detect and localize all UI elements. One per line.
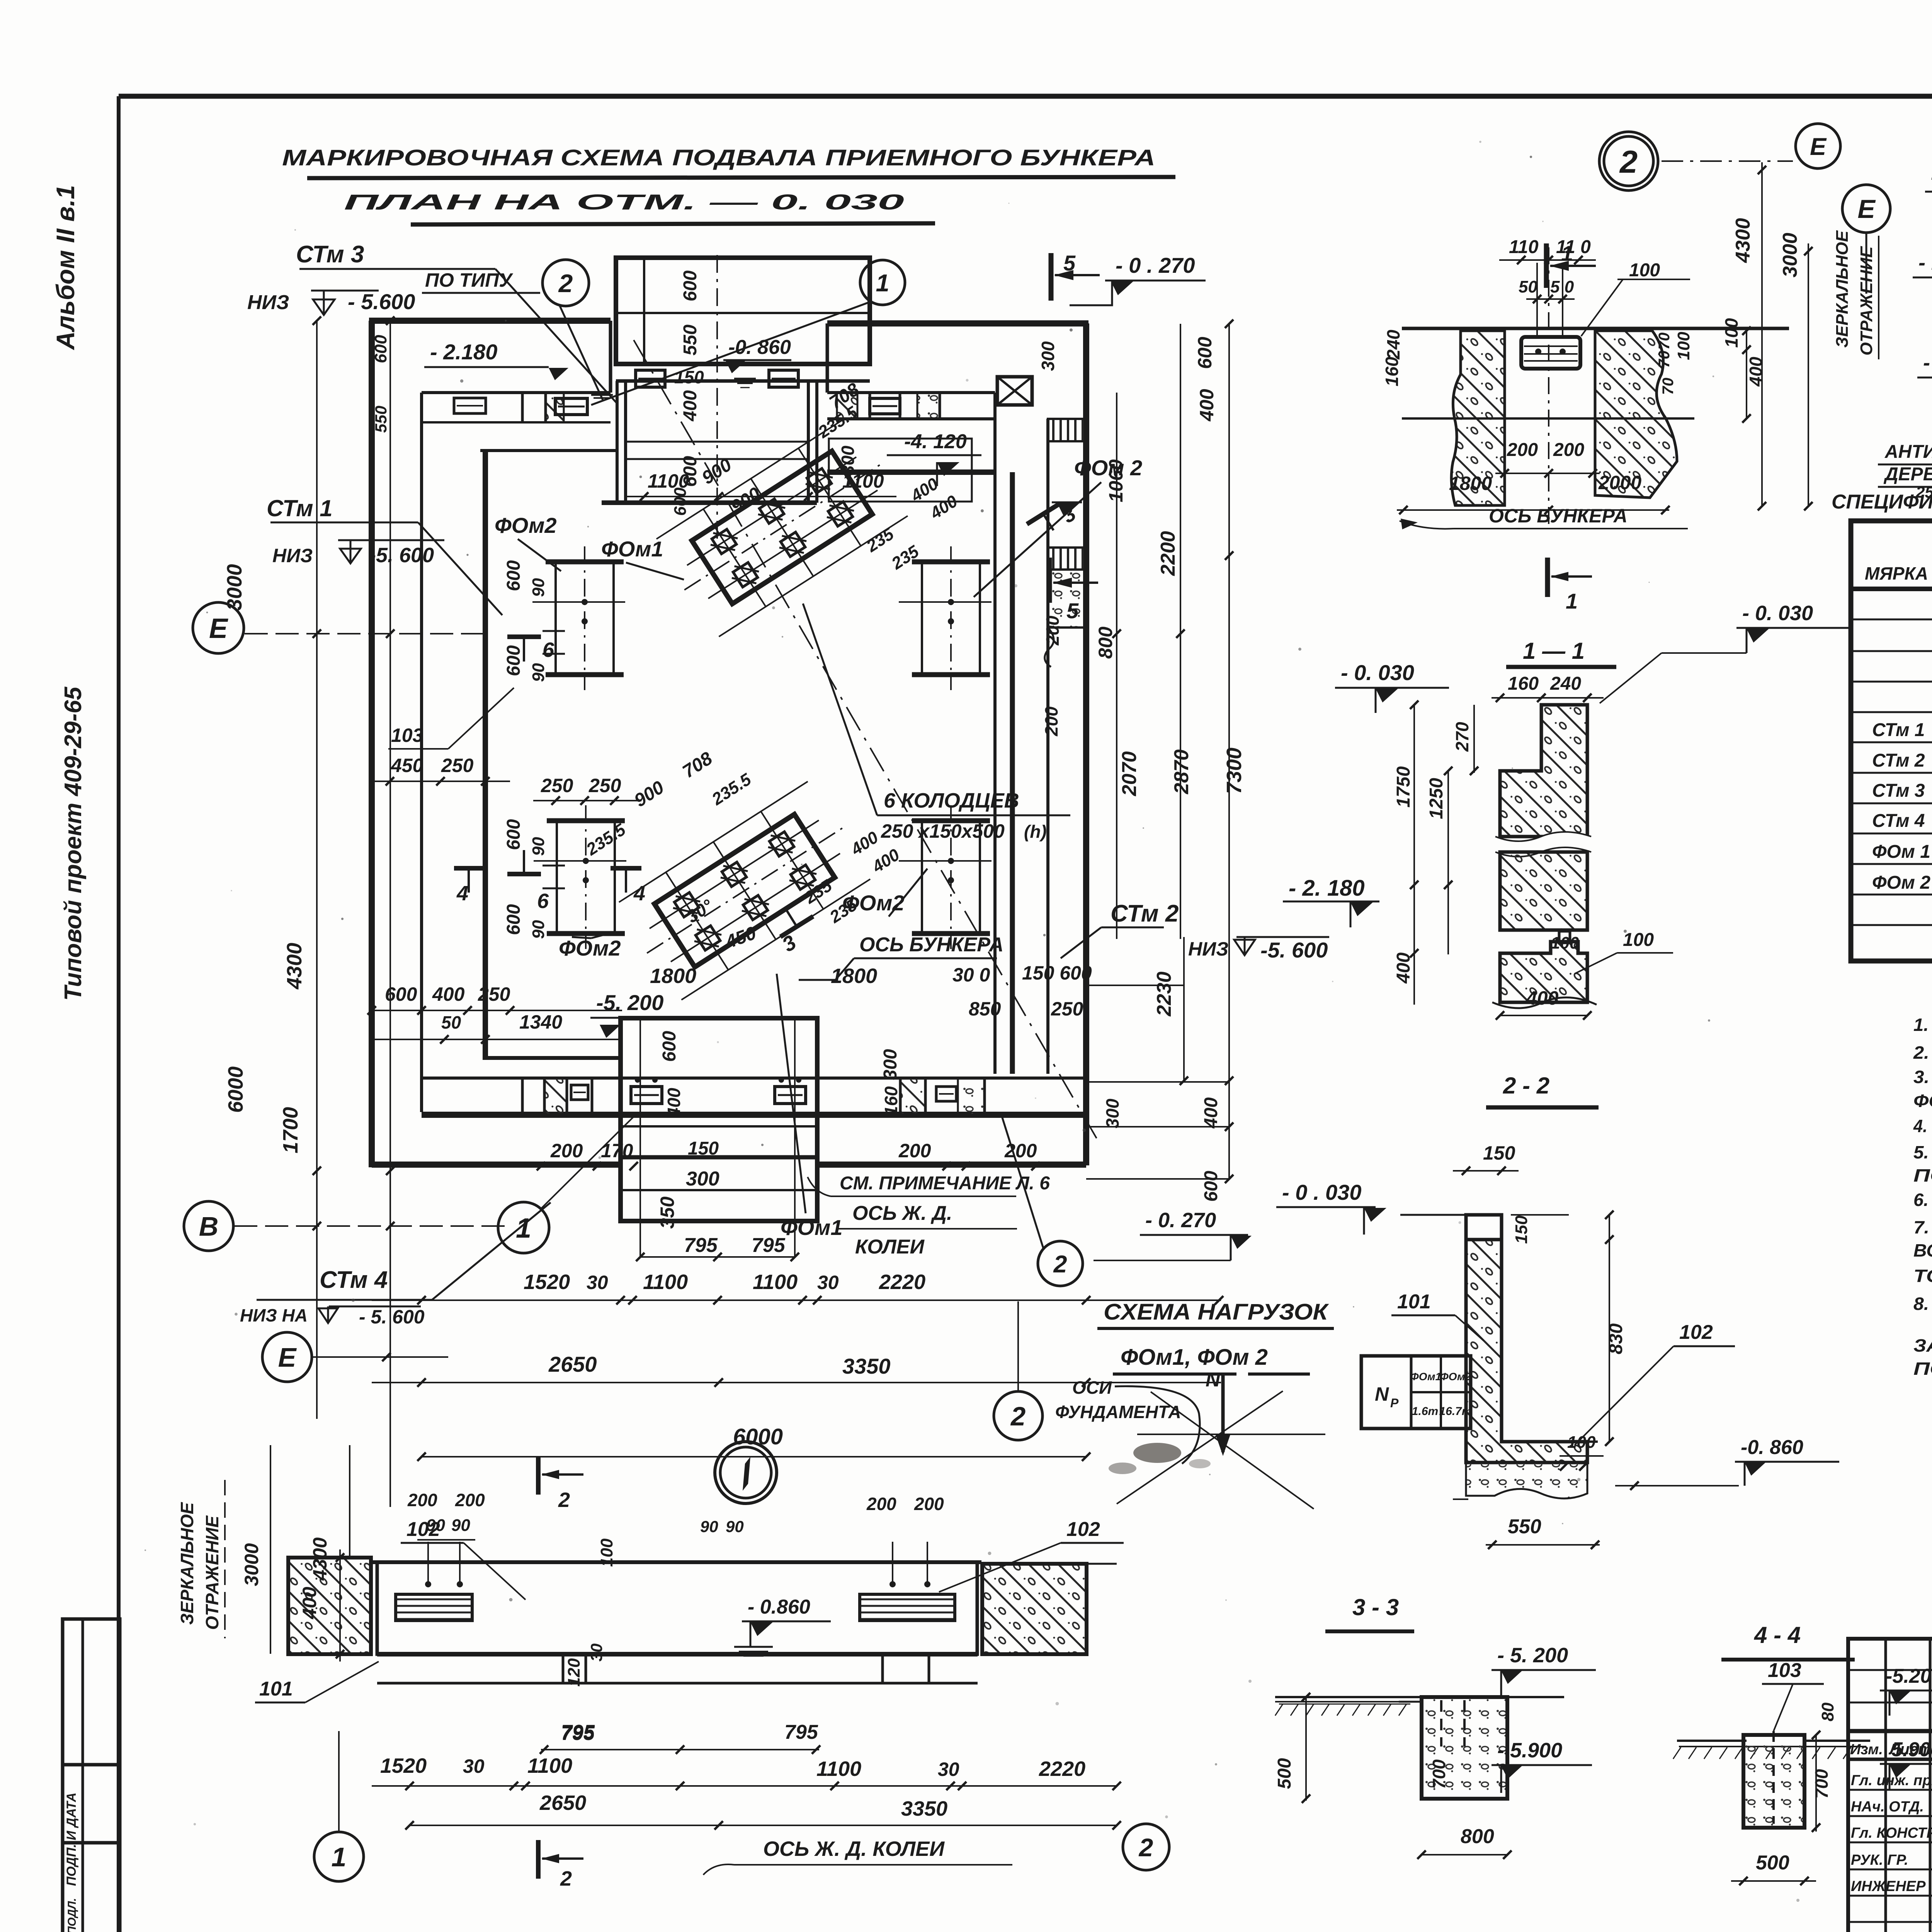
spec table row lines <box>1851 619 1932 621</box>
svg-text:90: 90 <box>529 920 548 939</box>
svg-text:1: 1 <box>1566 589 1578 613</box>
svg-text:1100: 1100 <box>648 470 689 492</box>
svg-text:30: 30 <box>817 1272 839 1293</box>
foundation FOm1 upper rotated <box>653 416 911 639</box>
svg-text:200: 200 <box>1043 616 1063 646</box>
hatch ladder band right column upper <box>1048 419 1086 441</box>
svg-text:102: 102 <box>1679 1321 1713 1344</box>
svg-text:400: 400 <box>1196 389 1218 422</box>
leader from circle 1 <box>591 302 869 405</box>
svg-text:160: 160 <box>1382 357 1402 386</box>
svg-text:Лист: Лист <box>1888 1741 1932 1758</box>
svg-text:ФОм1, ФОм 2: ФОм1, ФОм 2 <box>1121 1345 1268 1370</box>
load diagram smudge <box>1133 1443 1181 1463</box>
leader from circle 2 <box>560 305 603 400</box>
dims 1750 1250 270 left of 1-1 <box>1413 705 1415 1005</box>
axis circle E lower-left <box>262 1332 312 1382</box>
section 3-3 pit <box>1422 1697 1507 1799</box>
wire neck inner horizontal <box>616 312 870 314</box>
title block signature columns <box>1884 1639 1887 1932</box>
section mark 6 lower <box>507 872 541 876</box>
svg-text:30 0: 30 0 <box>952 964 990 986</box>
wire plug verticals top middle <box>1536 263 1538 337</box>
svg-text:3000: 3000 <box>241 1543 262 1586</box>
title block signature table frame <box>1848 1639 1932 1932</box>
svg-text:СТм 3: СТм 3 <box>1872 781 1925 801</box>
svg-text:В: В <box>199 1211 219 1242</box>
svg-text:1800: 1800 <box>831 964 877 988</box>
foundation FOm1 lower rotated <box>616 779 873 1002</box>
wall right wing left edge <box>826 323 829 393</box>
section 6-6 cut dashes <box>543 630 565 632</box>
svg-text:150: 150 <box>1512 1215 1531 1244</box>
axis circle E left <box>193 602 244 653</box>
svg-text:ИНЖЕНЕР: ИНЖЕНЕР <box>1851 1878 1926 1895</box>
plug symbol neck top left <box>636 370 665 387</box>
section mark 5 bottom <box>1047 558 1052 603</box>
svg-text:2: 2 <box>1619 144 1638 180</box>
spec table header row line <box>1851 587 1932 591</box>
wall right inner face vertical <box>1046 419 1049 1074</box>
wire right wing cell dividers <box>869 393 871 419</box>
wire left wing cell dividers <box>521 393 524 422</box>
svg-text:400: 400 <box>664 1088 684 1118</box>
defs fom2 foundation symbol <box>0 0 0 0</box>
subtitle underline <box>411 223 935 224</box>
svg-text:90: 90 <box>529 578 548 597</box>
svg-text:ДЕРЕВЯННЫЕ ПРОБКИ: ДЕРЕВЯННЫЕ ПРОБКИ <box>1883 464 1932 485</box>
svg-text:600: 600 <box>503 819 524 850</box>
svg-text:В. № ПОДЛ.: В. № ПОДЛ. <box>66 1898 78 1932</box>
svg-text:200: 200 <box>455 1490 485 1510</box>
wall left wing bottom line <box>422 421 611 423</box>
wall right wing bottom edge <box>827 469 995 475</box>
hatched wall right top middle <box>1595 331 1677 498</box>
elevation main band <box>377 1562 977 1654</box>
svg-text:795: 795 <box>561 1721 595 1743</box>
svg-text:1100: 1100 <box>816 1757 861 1781</box>
wire rail axis right <box>794 1020 796 1258</box>
svg-text:270: 270 <box>1452 722 1472 752</box>
svg-text:700: 700 <box>1429 1759 1449 1789</box>
svg-text:100: 100 <box>1629 260 1660 281</box>
svg-text:6. ДЕФОРМАЦИОННЫЕ ШВЫ МЕЖДУ С: 6. ДЕФОРМАЦИОННЫЕ ШВЫ МЕЖДУ СТЕНАМИ ПОДВ… <box>1913 1190 1932 1210</box>
svg-text:ПО ХОЛОДНОЙ БИТУМНОЙ ГРУНТОВ: ПО ХОЛОДНОЙ БИТУМНОЙ ГРУНТОВКЕ. <box>1913 1165 1932 1185</box>
dim line left vertical outer <box>389 321 391 1507</box>
svg-text:600: 600 <box>503 645 524 676</box>
svg-text:500: 500 <box>1274 1758 1295 1789</box>
hatch patch left wing <box>545 393 564 422</box>
svg-text:4300: 4300 <box>1732 218 1754 263</box>
section mark 6 upper <box>507 634 541 639</box>
svg-text:70: 70 <box>1660 378 1677 395</box>
svg-text:НИЗ: НИЗ <box>1188 938 1228 960</box>
circle 2 below plan right <box>1038 1241 1083 1286</box>
svg-text:ЗЕРКАЛЬНОЕ: ЗЕРКАЛЬНОЕ <box>1833 230 1852 348</box>
leader CTm1 <box>270 522 418 524</box>
plug right wing <box>870 398 900 414</box>
svg-text:1520: 1520 <box>380 1754 427 1777</box>
spec table frame <box>1851 521 1932 961</box>
plug left wing <box>555 398 587 415</box>
svg-text:СПЕЦИФИКАЦИЯ ЭЛЕМЕНТОВ К МАРКИ: СПЕЦИФИКАЦИЯ ЭЛЕМЕНТОВ К МАРКИРОВОЧНОЙ С… <box>1832 490 1932 513</box>
svg-text:795: 795 <box>684 1234 718 1257</box>
section mark 3 upper diagonal <box>1027 500 1080 546</box>
svg-text:Изм.: Изм. <box>1850 1742 1883 1758</box>
svg-text:600: 600 <box>1194 337 1216 369</box>
svg-text:ФУНДАМЕНТА: ФУНДАМЕНТА <box>1055 1402 1181 1422</box>
section mark 2 upper elevation <box>536 1456 541 1495</box>
svg-text:СТм 3: СТм 3 <box>296 241 364 268</box>
wall left inner face vertical <box>420 393 423 1112</box>
svg-text:30: 30 <box>463 1755 485 1777</box>
svg-text:МЯРКА: МЯРКА <box>1865 563 1928 583</box>
svg-text:4300: 4300 <box>309 1537 331 1581</box>
svg-text:- 5. 600: - 5. 600 <box>359 1306 425 1328</box>
svg-text:E: E <box>209 613 228 644</box>
wall left wing inner face <box>422 391 611 394</box>
svg-text:90: 90 <box>529 837 548 856</box>
svg-text:600: 600 <box>659 1031 680 1062</box>
svg-text:1700: 1700 <box>279 1107 302 1153</box>
Np load table <box>1361 1356 1471 1429</box>
svg-text:300: 300 <box>1102 1099 1122 1128</box>
dim line left vertical inner <box>316 321 318 1419</box>
svg-text:СМ. ПРИМЕЧАНИЕ Л. 6: СМ. ПРИМЕЧАНИЕ Л. 6 <box>840 1173 1050 1194</box>
svg-text:1800: 1800 <box>650 964 696 988</box>
svg-text:4300: 4300 <box>283 943 306 990</box>
svg-text:400: 400 <box>680 390 701 422</box>
svg-text:ПЛАН НА ОТМ. — 0. 030: ПЛАН НА ОТМ. — 0. 030 <box>344 190 904 214</box>
right dim chains vertical lines <box>1116 393 1117 939</box>
axis circle B left <box>184 1201 233 1251</box>
circle 1 elevation <box>314 1832 364 1881</box>
svg-text:700: 700 <box>1811 1769 1832 1799</box>
svg-text:1 — 1: 1 — 1 <box>1523 638 1585 664</box>
svg-text:СТм 2: СТм 2 <box>1872 750 1925 771</box>
svg-text:- 0. 030: - 0. 030 <box>1341 660 1414 685</box>
svg-text:110: 110 <box>1509 237 1539 257</box>
svg-text:4 - 4: 4 - 4 <box>1754 1622 1801 1648</box>
svg-text:ПО ТИПУ: ПО ТИПУ <box>425 269 514 291</box>
svg-text:850: 850 <box>969 998 1001 1020</box>
section 3-3 inner dashes <box>1440 1700 1442 1747</box>
svg-text:2220: 2220 <box>879 1270 925 1294</box>
section floor line top middle <box>1402 327 1789 330</box>
svg-text:-5. 600: -5. 600 <box>369 544 434 567</box>
wall inner CTm1 vertical <box>483 451 488 1059</box>
sheet frame top border <box>119 94 1932 99</box>
svg-text:N: N <box>1206 1369 1221 1391</box>
svg-text:200: 200 <box>1041 706 1061 736</box>
svg-text:100: 100 <box>1567 1433 1596 1452</box>
level mark inside right column <box>1052 502 1082 503</box>
svg-text:795: 795 <box>784 1721 818 1743</box>
svg-text:3350: 3350 <box>842 1354 891 1378</box>
svg-text:2650: 2650 <box>548 1352 597 1376</box>
level flag -4.120 <box>937 462 959 476</box>
svg-text:150: 150 <box>674 367 704 387</box>
circle 2 elevation right <box>1123 1824 1169 1870</box>
svg-text:6 КОЛОДЦЕВ: 6 КОЛОДЦЕВ <box>884 789 1019 812</box>
svg-text:3350: 3350 <box>901 1797 947 1820</box>
foundation FOm2 C top-right <box>912 560 990 565</box>
svg-text:250: 250 <box>588 775 621 796</box>
svg-text:ФОм 1: ФОм 1 <box>1872 842 1930 862</box>
svg-text:E: E <box>1857 194 1876 224</box>
svg-text:400: 400 <box>1201 1097 1221 1129</box>
elevation lower thin band <box>377 1652 978 1656</box>
bottom band plug neck left <box>631 1087 662 1104</box>
svg-text:600: 600 <box>385 983 417 1005</box>
svg-text:70: 70 <box>1656 333 1673 350</box>
foundation FOm2 D bottom-right <box>912 818 990 823</box>
svg-text:200: 200 <box>1553 440 1584 460</box>
svg-text:16.7т: 16.7т <box>1439 1405 1472 1418</box>
hatched wall left top middle <box>1451 331 1505 505</box>
foundation FOm2 A top-left <box>546 560 624 565</box>
svg-text:2: 2 <box>1138 1833 1153 1862</box>
section mark 1 top middle <box>1544 243 1549 288</box>
svg-text:90: 90 <box>451 1516 470 1535</box>
section 1-1 bottom hatched band <box>1500 942 1587 1002</box>
pit outline right wing <box>829 439 972 502</box>
section 1-1 upper hatched wall <box>1500 705 1587 837</box>
svg-text:- 2.180: - 2.180 <box>430 340 497 364</box>
svg-text:600: 600 <box>503 560 524 591</box>
svg-text:2: 2 <box>560 1867 572 1890</box>
svg-text:102: 102 <box>1066 1518 1100 1541</box>
svg-text:E: E <box>278 1342 297 1372</box>
svg-text:250: 250 <box>478 983 510 1005</box>
svg-text:- 0.860: - 0.860 <box>748 1596 810 1618</box>
axis circle 2 double top middle <box>1599 132 1658 190</box>
margin stamp boxes bottom-left <box>63 1619 120 1932</box>
svg-text:МАРКИРОВОЧНАЯ СХЕМА ПОДВАЛ: МАРКИРОВОЧНАЯ СХЕМА ПОДВАЛА ПРИЕМНОГО БУ… <box>282 145 1155 170</box>
svg-text:70: 70 <box>1656 351 1673 368</box>
svg-text:6: 6 <box>537 889 549 913</box>
section bottom line top middle <box>1402 417 1694 420</box>
wall inner bottom edge <box>483 1056 621 1060</box>
bottom band plug right small <box>936 1087 956 1101</box>
svg-text:6: 6 <box>543 638 554 662</box>
bunker diagonal axis <box>634 340 1099 1143</box>
svg-text:100: 100 <box>1623 930 1654 950</box>
svg-text:НАч. ОТД.: НАч. ОТД. <box>1851 1799 1924 1815</box>
svg-text:-4. 120: -4. 120 <box>904 430 967 453</box>
section 1-1 break band <box>1495 832 1591 857</box>
hatch concrete patch right column <box>1048 570 1086 628</box>
section 2-2 wall cap <box>1466 1215 1502 1240</box>
svg-text:103: 103 <box>1768 1659 1801 1682</box>
svg-text:7300: 7300 <box>1223 748 1246 794</box>
svg-text:СТм 4: СТм 4 <box>1872 811 1925 831</box>
FOm1 diagonal dim rails <box>656 418 908 636</box>
svg-text:4. ПОДГОТОВКУ ПОД СТЕНЫ ПОДВАЛ: 4. ПОДГОТОВКУ ПОД СТЕНЫ ПОДВАЛА ВЫПОЛНИТ… <box>1913 1116 1932 1136</box>
circle 2 load diagram <box>994 1391 1043 1440</box>
svg-text:ОТРАЖЕНИЕ: ОТРАЖЕНИЕ <box>1857 246 1876 355</box>
elevation dots and leaders left <box>425 1581 431 1587</box>
elevation dots right <box>889 1581 896 1587</box>
section mark 4 right <box>611 866 641 871</box>
section 2-2 footing below <box>1466 1463 1587 1498</box>
wall bottom band top line <box>422 1077 1086 1080</box>
svg-text:30: 30 <box>938 1759 959 1780</box>
svg-text:240: 240 <box>1550 673 1581 694</box>
svg-text:160: 160 <box>1508 673 1539 694</box>
bottom band hatch patches right <box>900 1078 925 1115</box>
svg-text:100: 100 <box>1721 318 1742 348</box>
plug symbol neck top right <box>769 370 798 387</box>
paper specks <box>966 379 969 382</box>
svg-text:4: 4 <box>633 882 645 905</box>
svg-text:1060: 1060 <box>1105 459 1127 502</box>
svg-text:1800: 1800 <box>1449 473 1492 494</box>
elevation wood plug left <box>396 1594 472 1621</box>
wall bottom outer edge right <box>817 1162 1086 1168</box>
svg-text:2200: 2200 <box>1157 531 1179 576</box>
bottom band cell dividers left <box>521 1078 524 1115</box>
svg-text:100: 100 <box>1674 332 1693 360</box>
bottom band plug left small <box>571 1085 588 1100</box>
title block upper revision rows <box>1848 1669 1932 1671</box>
svg-text:200: 200 <box>914 1494 944 1514</box>
bottom band cell dividers right <box>899 1078 902 1115</box>
svg-text:300: 300 <box>1038 341 1058 371</box>
svg-text:200: 200 <box>550 1140 583 1162</box>
section mark 5 top <box>1049 253 1054 301</box>
bottom band plug neck right <box>775 1087 806 1104</box>
axis circle E top middle <box>1796 124 1840 168</box>
svg-text:ПОДП. И ДАТА: ПОДП. И ДАТА <box>64 1793 79 1886</box>
svg-text:30: 30 <box>587 1272 608 1293</box>
svg-text:150: 150 <box>688 1138 719 1159</box>
svg-text:5: 5 <box>1066 599 1079 623</box>
hatch ladder band right column lower <box>1048 548 1086 570</box>
svg-text:1750: 1750 <box>1393 766 1414 808</box>
svg-text:90: 90 <box>529 663 548 682</box>
svg-text:- 0. 030: - 0. 030 <box>1742 602 1813 625</box>
svg-text:5: 5 <box>1063 251 1076 275</box>
load diagram ground line <box>1137 1434 1325 1435</box>
svg-text:Типовой проект 409-29-65: Типовой проект 409-29-65 <box>60 686 87 1001</box>
wall right wing top edge <box>827 320 1088 327</box>
wall inner CTm2 vertical pair <box>993 393 997 1074</box>
svg-text:200: 200 <box>898 1140 931 1162</box>
wire rail axis left <box>639 1020 641 1258</box>
svg-text:600: 600 <box>1201 1171 1221 1202</box>
ground symbol left wing <box>591 394 613 396</box>
wall bottom neck inner line thin <box>621 1125 817 1128</box>
svg-text:400: 400 <box>1526 987 1559 1009</box>
wall right wing inner face <box>827 391 995 394</box>
elevation top line thick <box>371 1560 981 1564</box>
elevation right hatched block <box>982 1564 1087 1654</box>
double circle 1 north mark <box>715 1442 777 1503</box>
svg-text:-0. 860: -0. 860 <box>728 336 791 359</box>
svg-text:- 4. 160: - 4. 160 <box>1923 351 1932 374</box>
svg-text:СХЕМА НАГРУЗОК: СХЕМА НАГРУЗОК <box>1104 1299 1329 1325</box>
svg-text:3000: 3000 <box>1779 233 1801 277</box>
bottom band hatch patch left <box>544 1078 567 1115</box>
svg-text:ОСИ: ОСИ <box>1072 1378 1112 1398</box>
section mark 1 above 1-1 <box>1545 558 1550 597</box>
wall neck lower band line <box>616 379 870 383</box>
svg-text:1.6т: 1.6т <box>1412 1405 1438 1418</box>
plug stub on bottom band <box>1559 931 1570 943</box>
svg-text:800: 800 <box>1461 1825 1494 1848</box>
svg-text:1100: 1100 <box>753 1270 798 1294</box>
svg-text:ФОм2: ФОм2 <box>559 936 621 960</box>
wall left wing right edge <box>609 321 612 393</box>
svg-text:90: 90 <box>700 1517 718 1536</box>
svg-text:- 2. 180: - 2. 180 <box>1289 876 1365 901</box>
svg-text:400: 400 <box>1746 357 1766 387</box>
wall bottom neck inner line thick <box>621 1155 817 1160</box>
svg-text:СТм 1: СТм 1 <box>1872 720 1925 740</box>
elevation right end lines <box>1087 1563 1117 1565</box>
svg-text:3000: 3000 <box>223 564 246 611</box>
svg-text:ФОм1: ФОм1 <box>1410 1371 1441 1383</box>
svg-text:3. СБОРОЧНЫЕ ЕДИНИЦЫ И РАСХОД: 3. СБОРОЧНЫЕ ЕДИНИЦЫ И РАСХОД МАТЕРИАЛОВ… <box>1913 1067 1932 1087</box>
svg-text:100: 100 <box>597 1538 616 1567</box>
svg-text:160: 160 <box>881 1086 901 1116</box>
svg-text:НИЗ: НИЗ <box>272 545 313 566</box>
svg-text:1: 1 <box>332 1842 347 1872</box>
wall left wing top edge <box>369 318 611 324</box>
svg-text:Гл. КОНСТР.: Гл. КОНСТР. <box>1851 1825 1932 1841</box>
svg-text:ОСЬ Ж. Д. КОЛЕИ: ОСЬ Ж. Д. КОЛЕИ <box>763 1837 945 1861</box>
svg-text:2 - 2: 2 - 2 <box>1503 1073 1549 1099</box>
svg-text:400: 400 <box>1393 952 1414 984</box>
svg-text:5. НАРУЖНЫЕ ПОВЕРХНОСТИ СТЕН О: 5. НАРУЖНЫЕ ПОВЕРХНОСТИ СТЕН ОБМАЗАТЬ ГО… <box>1913 1142 1932 1162</box>
svg-text:- 5.600: - 5.600 <box>348 289 415 314</box>
wall top neck outer rectangle <box>616 258 870 364</box>
svg-text:200: 200 <box>866 1494 896 1514</box>
wall inner top edge <box>480 449 617 452</box>
svg-text:1100: 1100 <box>527 1754 572 1777</box>
foundation FOm2 B bottom-left <box>547 818 625 823</box>
title block signature rows <box>1848 1789 1932 1791</box>
svg-text:50: 50 <box>441 1012 461 1032</box>
svg-text:350: 350 <box>656 1196 678 1229</box>
svg-text:250 х150х500: 250 х150х500 <box>881 820 1005 842</box>
svg-text:ОСЬ БУНКЕРА: ОСЬ БУНКЕРА <box>1489 505 1628 527</box>
dim line vertical 4300 3000 <box>1761 162 1763 506</box>
svg-text:6000: 6000 <box>224 1066 247 1113</box>
svg-text:120: 120 <box>565 1658 583 1687</box>
wall bottom band bottom line <box>422 1112 1086 1118</box>
svg-text:ЗАМОНОЛИЧИВАНИЯ ПОКРЫТИЯ И: ЗАМОНОЛИЧИВАНИЯ ПОКРЫТИЯ И ПОСЛЕ ДОСТИЖЕ… <box>1913 1335 1932 1355</box>
svg-text:90: 90 <box>426 1516 445 1535</box>
svg-text:2870: 2870 <box>1170 749 1193 794</box>
svg-text:450: 450 <box>391 755 423 776</box>
svg-text:600: 600 <box>371 335 390 363</box>
svg-text:2: 2 <box>558 269 573 298</box>
svg-text:2: 2 <box>1010 1401 1026 1431</box>
svg-text:2000: 2000 <box>1598 472 1641 493</box>
svg-text:ФОм1: ФОм1 <box>781 1215 843 1240</box>
svg-text:1. МАРКИРОВОЧНУЮ СХЕМУ ФУНДАМЕ: 1. МАРКИРОВОЧНУЮ СХЕМУ ФУНДАМЕНТОВ И ФУН… <box>1913 1015 1932 1035</box>
title block header row thick lines <box>1848 1729 1932 1733</box>
svg-text:1250: 1250 <box>1426 778 1447 819</box>
elevation left hatched block <box>288 1558 371 1654</box>
right bottom horizontal dim links <box>1086 985 1184 986</box>
svg-text:1: 1 <box>516 1213 531 1244</box>
svg-text:Альбом II в.1: Альбом II в.1 <box>51 185 80 350</box>
svg-text:Гл. инж. пр.: Гл. инж. пр. <box>1851 1772 1932 1789</box>
svg-text:2070: 2070 <box>1118 751 1141 796</box>
